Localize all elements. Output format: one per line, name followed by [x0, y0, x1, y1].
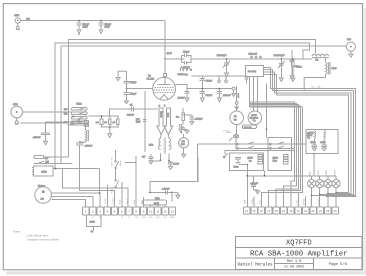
wire blower 3	[51, 200, 85, 207]
svg-text:12: 12	[163, 210, 167, 214]
svg-text:RCA SBA-1000 Amplifier: RCA SBA-1000 Amplifier	[250, 250, 348, 258]
svg-text:C202: C202	[320, 142, 326, 144]
svg-text:+100uF: +100uF	[162, 189, 170, 191]
wire bus L2	[55, 43, 310, 168]
svg-text:NO: NO	[46, 162, 50, 164]
tube V1 PL-172	[147, 59, 176, 108]
svg-text:+700uF: +700uF	[250, 183, 258, 185]
wire blower 1	[51, 192, 100, 207]
capacitor C101 500uF	[76, 21, 89, 34]
switch S102 chain	[115, 150, 119, 188]
wire lamp bus	[327, 195, 357, 197]
notes text	[13, 230, 59, 242]
pad P5	[225, 76, 228, 82]
svg-text:TR0B: TR0B	[310, 171, 312, 177]
ground right of P3	[185, 130, 189, 134]
svg-text:NO: NO	[64, 122, 68, 124]
filter box C201 C202	[306, 129, 338, 154]
title text Rev 1.0	[287, 260, 301, 264]
inductor RFC1 choke	[312, 54, 329, 61]
capacitor C7 0.1uF	[142, 154, 161, 161]
svg-text:+700uF: +700uF	[33, 137, 41, 139]
svg-text:LG: LG	[135, 217, 138, 219]
svg-text:100n: 100n	[297, 66, 303, 68]
svg-text:Grid B reg: Grid B reg	[178, 73, 189, 76]
svg-text:1m: 1m	[176, 117, 179, 119]
relay A301 box	[230, 153, 264, 171]
svg-text:1 Prd: 1 Prd	[104, 198, 107, 204]
node Black label	[226, 132, 232, 134]
wire bandswitch bundle bottom	[250, 77, 258, 112]
resistor R3 5.6k	[176, 108, 184, 125]
relay contacts K201a	[237, 142, 255, 149]
capacitor C103 pair 500pF	[165, 51, 312, 69]
svg-text:A304: A304	[273, 157, 279, 160]
meter M1 RA600	[179, 129, 189, 154]
svg-text:200V: 200V	[83, 27, 89, 29]
wire M2 top	[235, 86, 238, 111]
svg-text:13: 13	[171, 210, 175, 214]
ground below C9	[185, 98, 189, 102]
svg-text:A301: A301	[248, 157, 254, 160]
wire box C to lamp bus	[313, 154, 315, 176]
connector pins P3	[179, 125, 187, 130]
resistor R2 grid	[178, 67, 192, 77]
svg-text:Rev 1.0: Rev 1.0	[287, 260, 301, 264]
terminal strip TB1	[82, 207, 175, 215]
wire bus L1	[69, 39, 316, 157]
svg-text:0.5A: 0.5A	[155, 197, 160, 200]
junction dot at top wire	[78, 20, 102, 22]
svg-text:100uF: 100uF	[206, 80, 213, 82]
relay A304 box	[268, 138, 291, 171]
svg-text:Blower: Blower	[38, 184, 45, 187]
lamp DS3	[324, 176, 332, 207]
svg-text:AC: AC	[41, 197, 44, 200]
inductor L101	[80, 125, 89, 142]
ground below C104	[225, 73, 229, 77]
lamp DS1	[307, 176, 315, 207]
inductor L203	[304, 58, 337, 91]
terminal strip TB2	[243, 207, 338, 214]
svg-text:SG: SG	[156, 217, 159, 219]
wire AC top	[21, 18, 166, 21]
capacitor C220 700uF	[250, 176, 258, 191]
ground below C205	[279, 78, 283, 81]
wire plate arrow Red	[164, 108, 172, 135]
node B Lead label	[223, 131, 229, 133]
svg-text:L203: L203	[332, 68, 338, 70]
motor B1 blower	[35, 184, 52, 203]
capacitor C111 700uF	[33, 122, 50, 142]
ground below C210	[290, 76, 294, 79]
relay K101 contacts	[64, 103, 89, 124]
svg-text:G: G	[121, 217, 123, 219]
svg-text:1/Tanoid: 1/Tanoid	[249, 54, 258, 56]
relay contact NO-a	[46, 120, 89, 126]
svg-text:Black: Black	[127, 198, 129, 204]
lamp DS2	[316, 176, 324, 207]
wire labels TB1 risers	[104, 198, 143, 204]
svg-text:B1......B1+: B1......B1+	[312, 86, 323, 88]
ground below C220	[256, 191, 260, 194]
svg-text:AC: AC	[27, 18, 30, 21]
svg-text:1R3B0: 1R3B0	[326, 170, 328, 177]
svg-text:11-30-2002: 11-30-2002	[284, 266, 304, 270]
wire heater Drk Red	[136, 91, 147, 152]
wire K102 drop a	[63, 169, 129, 207]
title block	[236, 236, 362, 269]
ground below C13	[218, 98, 222, 102]
wire TB2 risers mid	[254, 192, 306, 207]
resistor network R101 R102 R103	[96, 115, 119, 128]
node 1/Tanoid	[249, 54, 262, 58]
svg-text:1R2Wh: 1R2Wh	[334, 169, 336, 177]
ground chassis below J1	[16, 23, 20, 29]
svg-text:20-1000pF: 20-1000pF	[274, 55, 285, 57]
svg-text:Bandsw: Bandsw	[248, 71, 256, 73]
capacitor C1	[127, 104, 134, 116]
svg-text:500pF: 500pF	[130, 94, 137, 96]
wire blower 2	[51, 196, 92, 207]
svg-text:+700uF: +700uF	[85, 145, 93, 147]
lamp labels	[310, 169, 337, 177]
lamp DS4	[332, 176, 340, 207]
svg-text:GND: GND	[170, 217, 175, 219]
wire screen bus	[192, 75, 248, 77]
junction dots under lamps	[311, 192, 337, 198]
pad P6	[245, 77, 248, 84]
ground below R205	[291, 78, 295, 81]
node B1 bus label	[312, 86, 323, 88]
transformer T1	[149, 135, 171, 162]
wire K101 to resistors	[89, 115, 101, 117]
svg-text:B Lead: B Lead	[223, 131, 229, 133]
svg-text:Current: Current	[244, 126, 252, 129]
svg-text:Notes:: Notes:	[13, 230, 21, 234]
svg-text:1 Grn: 1 Grn	[111, 198, 114, 204]
wire C112 to blower bus	[80, 153, 100, 193]
wire under relay boxes	[239, 164, 265, 207]
svg-text:1R1B0: 1R1B0	[318, 170, 320, 177]
ground below C8	[169, 166, 173, 169]
arrow to bias	[125, 101, 129, 104]
wire to tube grid	[127, 87, 153, 89]
wire K102 bus	[53, 168, 100, 170]
diode D2 terminal	[232, 87, 240, 98]
fan C106 box	[87, 215, 101, 226]
wire grid line from tube	[164, 21, 172, 60]
relay K102 contact NO	[34, 161, 73, 163]
terminal numbers TB2	[245, 209, 337, 213]
svg-text:L220: L220	[234, 166, 240, 168]
svg-text:SG: SG	[149, 217, 152, 219]
relay K102 coil box	[32, 166, 53, 176]
capacitor C12 500pF	[183, 115, 203, 122]
svg-text:C106: C106	[90, 221, 96, 223]
ground below J101	[15, 118, 19, 124]
wire M3 to filter	[236, 142, 294, 148]
svg-text:+500pF: +500pF	[195, 118, 203, 120]
svg-text:0.1uF: 0.1uF	[173, 163, 179, 165]
relay contact NO-b	[67, 124, 88, 126]
svg-text:arranged in second cabinet: arranged in second cabinet	[27, 238, 59, 242]
svg-text:500uF: 500uF	[206, 95, 213, 97]
svg-text:10: 10	[149, 210, 153, 214]
svg-text:NC: NC	[64, 113, 68, 115]
svg-text:0.82uF: 0.82uF	[178, 98, 185, 100]
ground below J20	[349, 51, 353, 57]
svg-text:K101: K101	[77, 103, 83, 105]
svg-text:C201: C201	[310, 142, 316, 144]
capacitor C102 500uF	[98, 21, 111, 34]
svg-text:GND: GND	[14, 15, 19, 17]
relay contacts K201b	[270, 142, 285, 149]
wire cathode line	[110, 109, 158, 116]
svg-text:XQ7FFD: XQ7FFD	[286, 240, 312, 248]
wire lamp feed bus	[246, 175, 336, 177]
wire K102 drop b	[80, 190, 115, 207]
svg-text:Page 5/6: Page 5/6	[329, 262, 348, 267]
svg-text:500uF: 500uF	[83, 24, 90, 26]
capacitor C9 500uF	[178, 89, 190, 100]
svg-text:500pF: 500pF	[130, 82, 137, 84]
svg-text:A-R T Gn: A-R T Gn	[111, 156, 114, 166]
pad P4	[218, 76, 221, 82]
svg-text:SG: SG	[142, 217, 145, 219]
svg-text:500pF: 500pF	[183, 51, 190, 53]
ground below C7	[149, 161, 153, 164]
capacitor C112 700uF	[76, 141, 93, 153]
svg-text:SG: SG	[164, 217, 167, 219]
meter M2	[230, 111, 244, 125]
wire M1 to filter	[198, 144, 306, 181]
wire J101 to K101	[23, 111, 72, 113]
ground below C10	[200, 98, 204, 102]
wire M2 bottom	[229, 125, 239, 143]
svg-text:0.82uF: 0.82uF	[127, 115, 134, 117]
wire TB1 risers	[107, 156, 143, 207]
title text XQ7FFD	[286, 240, 312, 248]
svg-text:10uF: 10uF	[167, 53, 173, 55]
wire switch to boxA	[223, 150, 294, 158]
svg-text:Black: Black	[159, 112, 161, 118]
junction dot K101	[72, 116, 74, 118]
svg-text:L302: L302	[154, 203, 160, 205]
wire L302 loop	[149, 158, 198, 201]
connector J20 top right	[346, 39, 355, 51]
svg-text:NC: NC	[45, 158, 49, 160]
wire bus L3	[61, 46, 346, 163]
wire plate bus	[176, 84, 233, 88]
ground below resistor network	[108, 127, 112, 137]
title text Daniel Morales	[238, 262, 274, 267]
title text date	[284, 266, 304, 270]
variable capacitor C104 20-100pF	[217, 55, 230, 73]
ground branch left of C105	[116, 71, 126, 81]
wire neutral	[20, 122, 69, 124]
variable capacitor C205 20-1000pF	[274, 55, 285, 78]
svg-text:RA: RA	[182, 140, 186, 143]
wire bandswitch bundle right	[264, 67, 356, 195]
svg-text:1B1k0: 1B1k0	[304, 198, 306, 205]
meter M3 channel	[248, 111, 262, 125]
wire B+ staircase bundle	[250, 102, 303, 207]
svg-text:Daniel Morales: Daniel Morales	[238, 262, 274, 267]
ground below C12	[190, 122, 194, 125]
terminal numbers TB1	[85, 210, 175, 214]
title text Page 5/6	[329, 262, 348, 267]
wire TB2 riser labels	[296, 197, 320, 205]
fuse F1 0.5A L302	[143, 197, 167, 207]
capacitor C106a 500pF	[124, 93, 137, 101]
svg-text:200V: 200V	[105, 27, 111, 29]
wire plate arrow Black	[157, 108, 165, 135]
terminal sublabels TB1	[92, 217, 175, 219]
fan symbol below C106	[91, 226, 94, 232]
svg-text:NO: NO	[64, 109, 68, 111]
capacitor C11 100uF	[162, 189, 170, 195]
ground below M1	[182, 154, 186, 157]
title text RCA SBA-1000 Amplifier	[250, 250, 348, 258]
junction at bus cross	[78, 34, 79, 35]
resistor R205 100n	[291, 58, 302, 78]
svg-text:20-100pF: 20-100pF	[217, 55, 227, 57]
svg-text:Black: Black	[120, 160, 122, 166]
riser labels TB2 left	[245, 199, 262, 204]
switch S201 bandswitch box	[246, 65, 264, 76]
svg-text:- C106: Blower fans: - C106: Blower fans	[25, 234, 48, 238]
svg-text:J101: J101	[13, 104, 19, 106]
svg-text:1Wht: 1Wht	[251, 199, 254, 204]
capacitor C13 1000uF	[217, 88, 231, 98]
capacitor C10 100uF chain	[200, 76, 213, 98]
connector J1 GND jack top-left	[14, 15, 20, 23]
capacitor C210 500n	[290, 50, 301, 76]
ground right of L302	[172, 192, 180, 198]
wire vertical to K201b	[266, 84, 268, 138]
svg-text:K102: K102	[42, 172, 48, 174]
svg-text:1000uF: 1000uF	[223, 95, 231, 97]
capacitor C105 500pF	[124, 71, 137, 92]
switch S102 labels	[111, 156, 122, 193]
ground below C111	[44, 141, 48, 145]
relay K102 contact NC	[34, 156, 69, 160]
connector J101	[11, 104, 23, 118]
svg-text:11: 11	[156, 210, 159, 214]
capacitor C8 0.1uF	[168, 161, 180, 167]
svg-text:500uF: 500uF	[105, 24, 112, 26]
svg-text:PL-172: PL-172	[147, 78, 155, 80]
node Current tag	[242, 125, 256, 129]
